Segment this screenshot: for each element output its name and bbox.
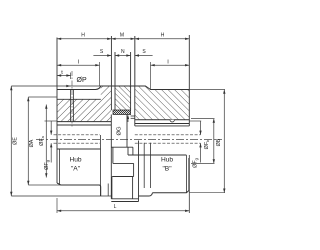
I right extension <box>150 62 152 90</box>
dimension M <box>111 38 134 40</box>
dimension I left <box>57 64 100 66</box>
svg-text:M: M <box>120 32 124 38</box>
spider elastomer dotted band <box>113 110 131 115</box>
clamping screw block below center <box>126 115 128 148</box>
svg-text:Hub: Hub <box>69 157 81 164</box>
hub B lower bore line <box>128 154 186 156</box>
svg-text:"B": "B" <box>162 166 172 173</box>
svg-text:ØB: ØB <box>216 138 222 146</box>
svg-text:N: N <box>121 49 125 55</box>
hub B pocket line <box>135 119 190 121</box>
dimension N <box>115 55 131 57</box>
sleeve hatched section <box>115 86 131 110</box>
ØG leader arrow <box>127 115 129 119</box>
dimension ØE <box>10 86 12 196</box>
hub A flange lower face second <box>110 190 112 196</box>
hub A flange top ØE extension <box>11 85 99 87</box>
dimension H right <box>135 38 190 40</box>
extension lines above center S N <box>110 36 112 86</box>
hub B hidden screw hole lines <box>143 143 145 188</box>
hub A keyway line <box>57 121 111 123</box>
dimension S left <box>93 55 111 57</box>
top line across gaps <box>100 85 146 87</box>
sleeve top <box>115 85 131 87</box>
svg-text:L: L <box>114 204 117 210</box>
dimension L <box>57 210 189 212</box>
hub A flange face lower / jaw edge <box>110 115 112 199</box>
svg-text:H: H <box>161 32 165 38</box>
hub B lower flange bottom and fillet <box>139 193 153 196</box>
dimension S right <box>135 55 153 57</box>
svg-text:ØG: ØG <box>116 126 122 136</box>
sleeve left face <box>114 52 116 110</box>
L extension left <box>56 198 58 213</box>
hub A lower silhouette <box>57 183 101 196</box>
svg-text:"A": "A" <box>71 166 81 173</box>
pilot bore hidden line lower left <box>54 142 101 144</box>
hub B flange face <box>134 36 136 126</box>
ØFg right top extension <box>189 120 201 122</box>
I left extension <box>99 62 101 86</box>
ØP hole centerline <box>71 71 73 127</box>
hub A lower chamfer line <box>58 149 60 185</box>
hub A outline top <box>57 86 111 90</box>
hub A bore line <box>57 124 111 126</box>
dimension ØA <box>27 97 29 185</box>
jaw step hub B <box>127 147 129 155</box>
pilot bore hidden line upper left <box>54 134 101 136</box>
pilot bore hidden line lower right <box>135 142 201 144</box>
pilot bore end tick left <box>100 135 102 196</box>
hub A ring boundary <box>57 98 101 100</box>
hub A face <box>56 38 58 184</box>
hub A lower bore line <box>57 148 101 150</box>
hub B hatched section <box>135 86 190 120</box>
hub B bore line <box>135 125 190 127</box>
svg-text:ØFa: ØFa <box>39 135 45 146</box>
dimension ØFb <box>213 119 215 164</box>
hub B outline top <box>135 86 190 90</box>
dimension H left <box>57 38 111 40</box>
svg-text:ØE: ØE <box>13 137 19 145</box>
hub B keyway line <box>135 123 190 125</box>
hub B lower chamfer line <box>185 155 187 193</box>
svg-text:ØFg: ØFg <box>192 158 198 168</box>
sleeve right face <box>130 52 132 110</box>
dimension ØB <box>223 90 225 193</box>
ØA extensions <box>28 96 57 98</box>
ØB extensions <box>189 89 225 91</box>
svg-text:Hub: Hub <box>161 157 173 164</box>
hub B set screw notch <box>170 120 174 122</box>
hub B face right lower extension for L <box>188 155 190 213</box>
dimension t <box>57 75 71 77</box>
t extension tick <box>70 73 72 80</box>
svg-text:H: H <box>81 32 85 38</box>
svg-text:ØP: ØP <box>77 77 87 84</box>
pilot bore hidden line upper right <box>135 134 201 136</box>
ØP hole <box>70 90 72 122</box>
dimension I right <box>151 64 190 66</box>
centerline <box>36 139 222 141</box>
dimension ØFg right <box>200 121 202 135</box>
ØFb extensions <box>191 118 215 120</box>
svg-text:ØFb: ØFb <box>204 139 210 150</box>
spider tooth lines in gap2 <box>131 115 135 117</box>
svg-text:ØA: ØA <box>29 139 35 147</box>
hub A hatched section <box>57 86 111 122</box>
hub B face right <box>188 35 190 126</box>
hub A flange face upper <box>110 36 112 110</box>
hub A flange bottom with ØE extension <box>11 195 111 197</box>
hub B lower silhouette <box>153 158 189 193</box>
dimension ØFg left <box>50 121 52 135</box>
svg-text:ØFg: ØFg <box>44 160 50 170</box>
dimension ØFa <box>45 105 47 178</box>
